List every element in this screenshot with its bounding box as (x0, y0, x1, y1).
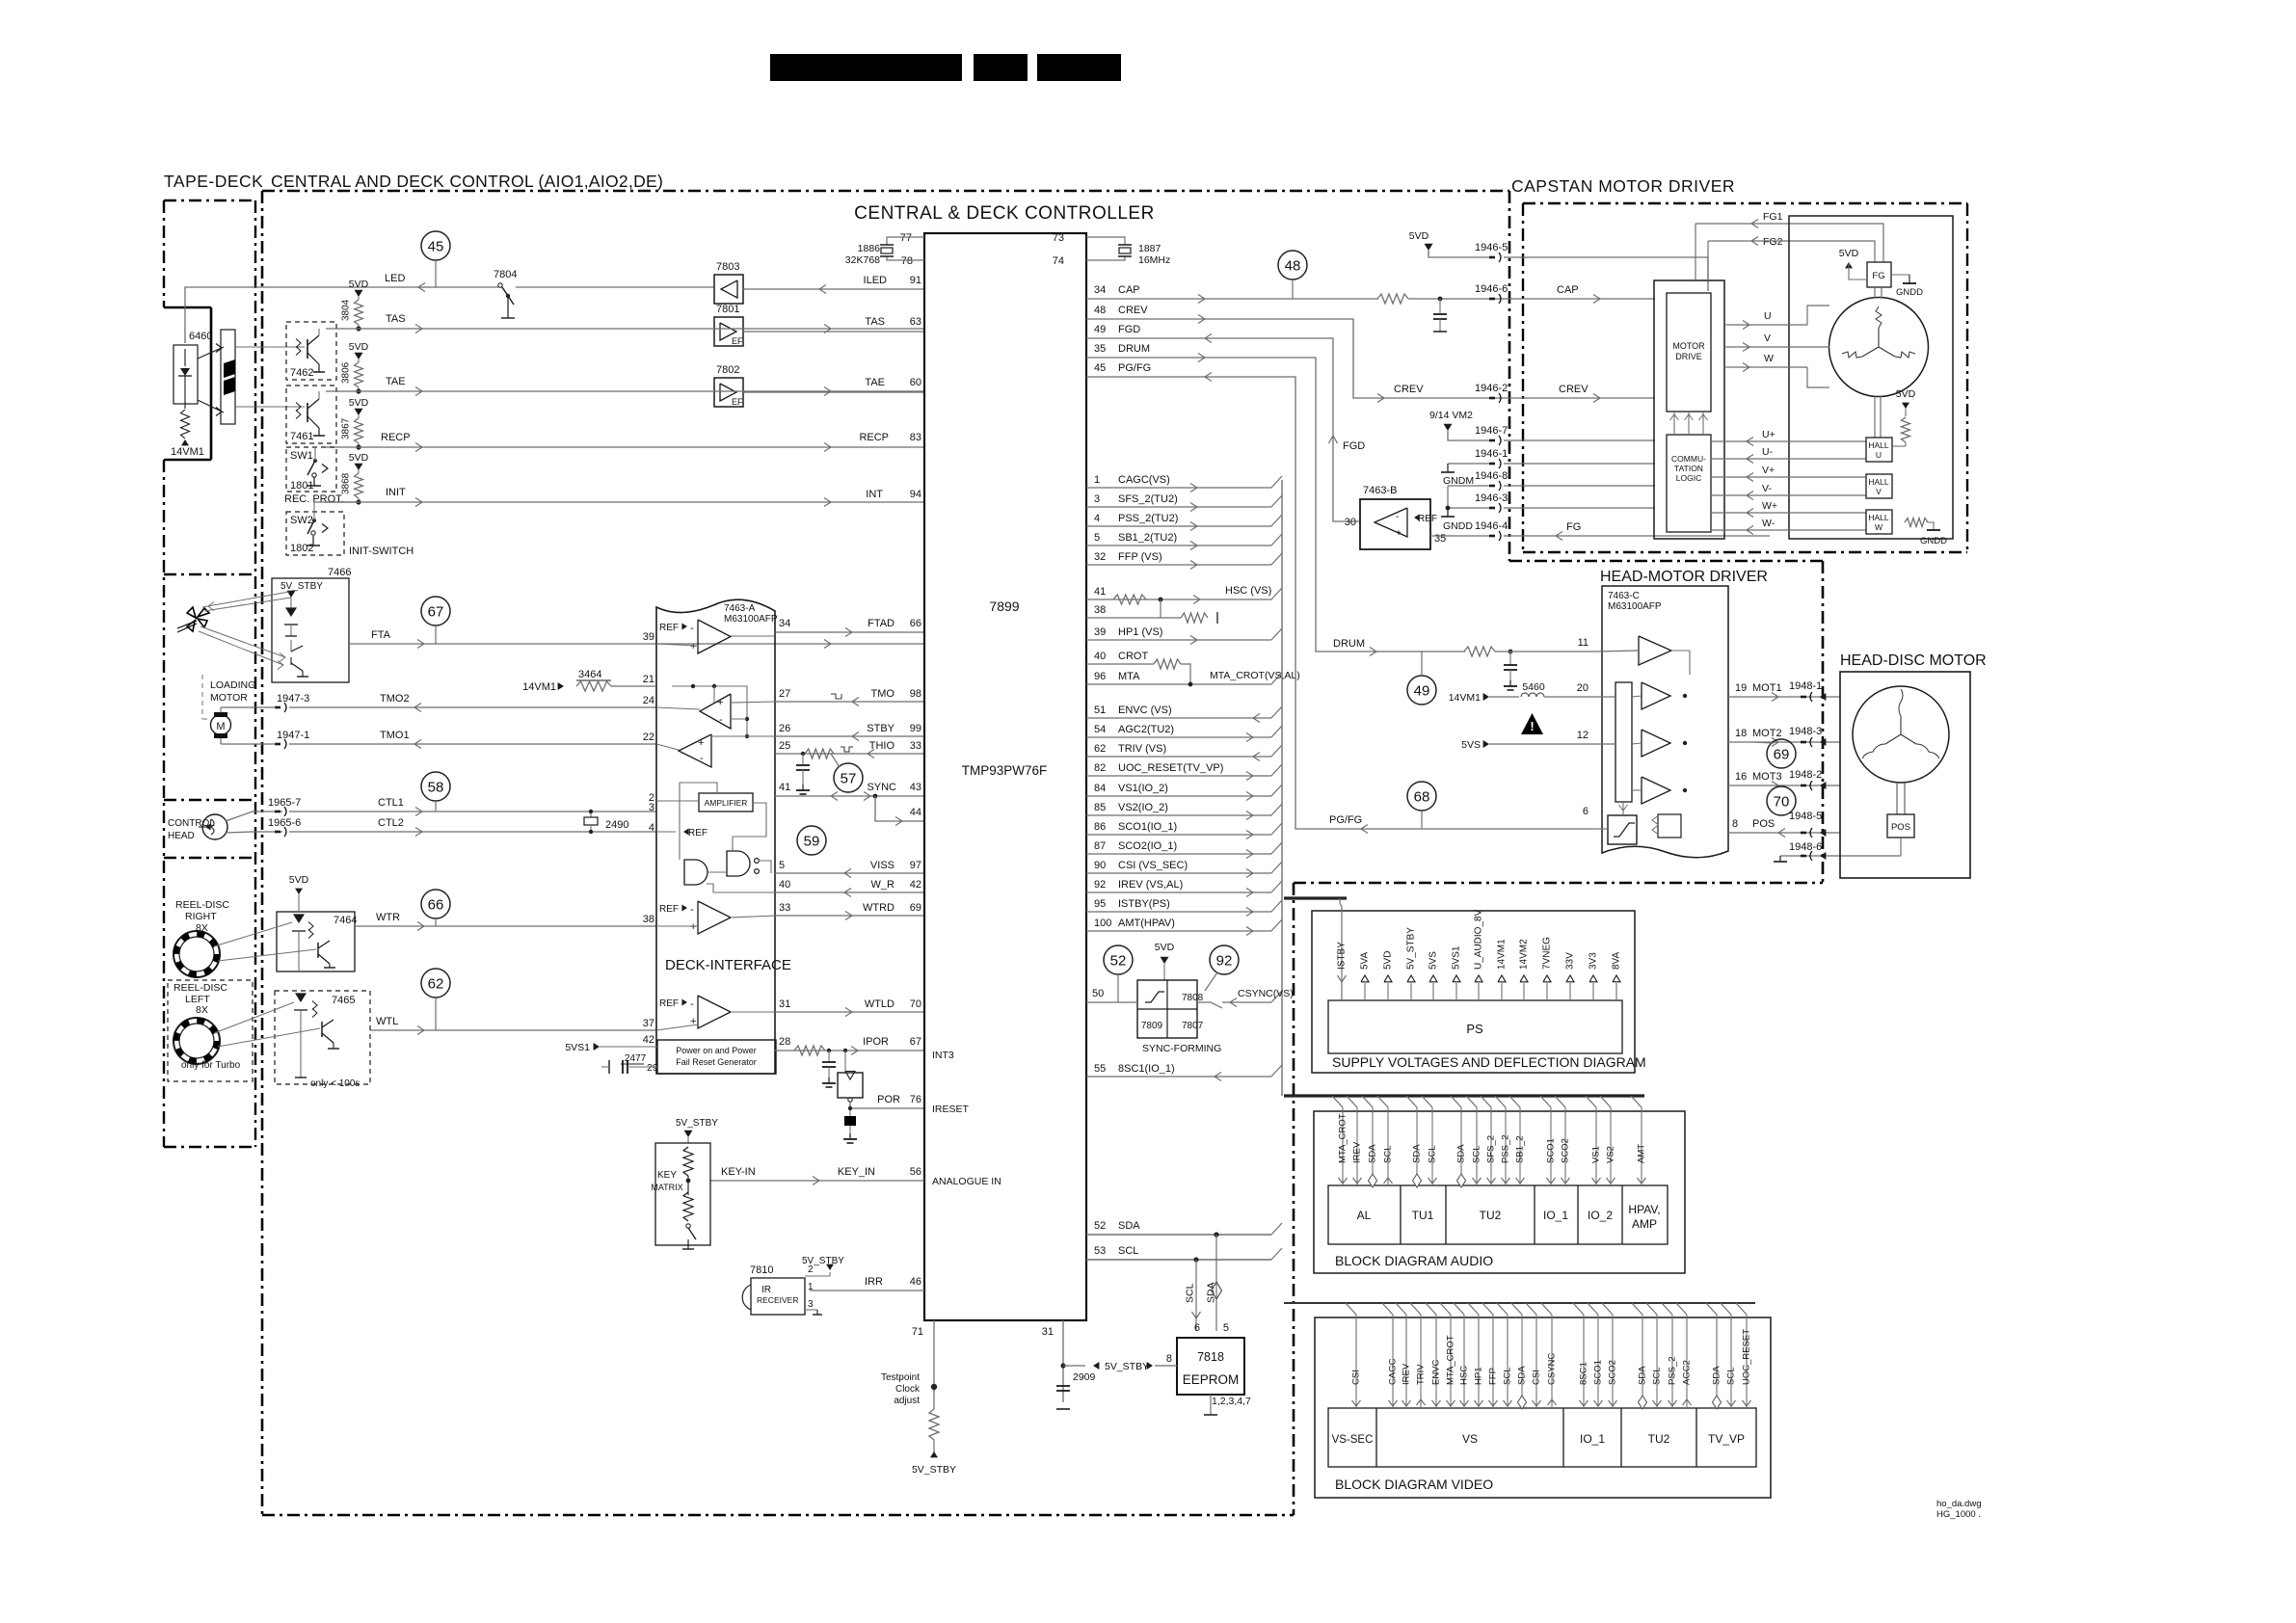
svg-text:+: + (1396, 528, 1402, 539)
svg-text:KEY_IN: KEY_IN (838, 1166, 875, 1178)
svg-text:CTL1: CTL1 (378, 797, 404, 809)
svg-text:22: 22 (643, 732, 654, 743)
svg-text:HPAV,: HPAV, (1628, 1203, 1660, 1216)
svg-text:71: 71 (912, 1326, 923, 1338)
svg-text:99: 99 (910, 723, 921, 734)
svg-text:W: W (1764, 353, 1774, 364)
svg-text:7VNEG: 7VNEG (1542, 937, 1553, 970)
svg-text:SDA: SDA (1118, 1220, 1140, 1232)
svg-text:1946-1: 1946-1 (1475, 448, 1508, 460)
svg-text:HSC (VS): HSC (VS) (1225, 585, 1271, 597)
svg-text:50: 50 (1092, 988, 1104, 999)
svg-text:RECEIVER: RECEIVER (757, 1295, 798, 1305)
svg-text:25: 25 (779, 740, 790, 752)
svg-text:18: 18 (1735, 728, 1747, 739)
svg-text:46: 46 (910, 1276, 921, 1288)
svg-text:SCL: SCL (1118, 1245, 1138, 1257)
svg-text:1948-2: 1948-2 (1789, 769, 1822, 781)
svg-text:POR: POR (877, 1094, 900, 1105)
svg-text:3V3: 3V3 (1589, 952, 1599, 970)
svg-text:5VA: 5VA (1360, 952, 1371, 970)
svg-text:31: 31 (1042, 1326, 1054, 1338)
svg-text:HP1 (VS): HP1 (VS) (1118, 626, 1162, 638)
svg-text:V+: V+ (1762, 465, 1775, 476)
svg-text:AL: AL (1357, 1209, 1372, 1222)
svg-text:MATRIX: MATRIX (651, 1183, 682, 1192)
svg-text:5VD: 5VD (349, 397, 369, 409)
svg-text:IRESET: IRESET (932, 1104, 970, 1115)
svg-text:RIGHT: RIGHT (185, 911, 217, 922)
svg-text:INT: INT (866, 489, 883, 500)
svg-text:REF: REF (659, 623, 679, 633)
svg-text:40: 40 (1094, 651, 1106, 662)
svg-text:!: ! (1530, 719, 1534, 733)
svg-text:56: 56 (910, 1166, 921, 1178)
svg-text:-: - (719, 714, 723, 726)
svg-text:45: 45 (428, 239, 444, 255)
svg-text:34: 34 (1094, 284, 1106, 296)
svg-text:3806: 3806 (341, 361, 352, 384)
svg-text:1948-5: 1948-5 (1789, 811, 1822, 822)
svg-text:DRIVE: DRIVE (1675, 352, 1702, 361)
svg-text:7809: 7809 (1141, 1021, 1163, 1031)
svg-text:11: 11 (1578, 637, 1589, 649)
svg-text:IREV: IREV (1352, 1141, 1363, 1163)
svg-text:1: 1 (1094, 474, 1100, 486)
svg-text:WTLD: WTLD (865, 998, 894, 1010)
svg-text:INIT-SWITCH: INIT-SWITCH (349, 545, 414, 557)
svg-text:5460: 5460 (1522, 681, 1545, 693)
svg-text:37: 37 (643, 1018, 654, 1029)
svg-text:HEAD-DISC MOTOR: HEAD-DISC MOTOR (1840, 652, 1987, 669)
svg-text:FGD: FGD (1343, 440, 1365, 452)
svg-text:ISTBY(PS): ISTBY(PS) (1118, 898, 1170, 910)
svg-text:HEAD-MOTOR DRIVER: HEAD-MOTOR DRIVER (1600, 569, 1768, 585)
svg-text:+: + (698, 737, 704, 749)
svg-text:78: 78 (901, 255, 913, 267)
svg-text:VS2: VS2 (1606, 1146, 1616, 1163)
svg-text:FG: FG (1566, 521, 1581, 533)
svg-text:16: 16 (1735, 771, 1747, 783)
svg-text:V: V (1764, 333, 1771, 344)
svg-text:FTA: FTA (371, 629, 391, 641)
svg-text:SB1_2: SB1_2 (1515, 1135, 1526, 1163)
svg-text:TAS: TAS (386, 313, 406, 325)
svg-text:CROT: CROT (1118, 651, 1148, 662)
svg-text:90: 90 (1094, 860, 1106, 871)
svg-text:2909: 2909 (1073, 1371, 1096, 1383)
svg-text:BLOCK DIAGRAM VIDEO: BLOCK DIAGRAM VIDEO (1335, 1477, 1493, 1492)
svg-text:STBY: STBY (867, 723, 894, 734)
svg-text:86: 86 (1094, 821, 1106, 833)
svg-text:CAGC(VS): CAGC(VS) (1118, 474, 1170, 486)
svg-text:SYNC-FORMING: SYNC-FORMING (1142, 1043, 1221, 1054)
svg-text:1946-2: 1946-2 (1475, 383, 1508, 394)
svg-text:CSI (VS_SEC): CSI (VS_SEC) (1118, 860, 1188, 871)
svg-text:92: 92 (1216, 953, 1233, 970)
svg-text:20: 20 (1577, 682, 1589, 694)
svg-text:ILED: ILED (864, 275, 888, 286)
svg-text:3: 3 (1094, 493, 1100, 505)
svg-text:-: - (690, 623, 694, 634)
svg-text:SCO1: SCO1 (1593, 1360, 1604, 1385)
svg-text:7462: 7462 (290, 367, 313, 379)
svg-text:-: - (690, 904, 694, 916)
svg-text:14VM1: 14VM1 (1497, 939, 1508, 970)
svg-text:VS: VS (1462, 1432, 1478, 1446)
svg-text:41: 41 (1094, 586, 1106, 598)
svg-text:TAE: TAE (865, 377, 885, 388)
svg-text:7464: 7464 (334, 915, 357, 926)
svg-text:HALL: HALL (1868, 477, 1889, 487)
svg-text:AGC2: AGC2 (1682, 1360, 1693, 1385)
svg-text:62: 62 (428, 976, 444, 993)
svg-text:AMPLIFIER: AMPLIFIER (705, 798, 748, 808)
svg-text:27: 27 (779, 688, 790, 700)
svg-text:HP1: HP1 (1474, 1368, 1484, 1385)
svg-text:70: 70 (1774, 794, 1790, 811)
svg-text:1887: 1887 (1138, 243, 1161, 254)
svg-text:ENVC (VS): ENVC (VS) (1118, 705, 1172, 716)
svg-text:42: 42 (643, 1034, 654, 1046)
svg-text:33: 33 (779, 902, 790, 914)
svg-text:EF: EF (732, 397, 743, 407)
svg-text:SCL: SCL (1726, 1368, 1737, 1385)
svg-text:MTA_CROT(VS,AL): MTA_CROT(VS,AL) (1210, 670, 1300, 681)
svg-text:70: 70 (910, 998, 921, 1010)
svg-text:33: 33 (910, 740, 921, 752)
svg-text:IPOR: IPOR (863, 1036, 889, 1048)
svg-text:RECP: RECP (859, 432, 889, 443)
svg-text:PG/FG: PG/FG (1118, 362, 1151, 374)
svg-text:35: 35 (1434, 533, 1446, 545)
svg-text:ANALOGUE IN: ANALOGUE IN (932, 1176, 1001, 1187)
svg-text:7802: 7802 (716, 364, 739, 376)
svg-text:63: 63 (910, 316, 921, 328)
svg-text:SYNC: SYNC (867, 782, 896, 793)
svg-text:DRUM: DRUM (1333, 638, 1365, 650)
svg-text:28: 28 (779, 1036, 790, 1048)
svg-text:REF: REF (688, 828, 707, 838)
svg-text:LOGIC: LOGIC (1676, 473, 1701, 483)
svg-text:94: 94 (910, 489, 921, 500)
svg-text:DRUM: DRUM (1118, 343, 1150, 355)
svg-text:73: 73 (1053, 232, 1064, 244)
svg-text:57: 57 (841, 771, 857, 787)
svg-text:45: 45 (1094, 362, 1106, 374)
svg-text:IO_1: IO_1 (1543, 1209, 1568, 1222)
svg-text:69: 69 (1774, 747, 1790, 763)
svg-text:SW2: SW2 (290, 515, 313, 526)
svg-text:IREV: IREV (1402, 1363, 1412, 1385)
svg-text:AMT: AMT (1637, 1144, 1647, 1163)
svg-text:UOC_RESET(TV_VP): UOC_RESET(TV_VP) (1118, 762, 1223, 774)
svg-text:SCL: SCL (1428, 1146, 1438, 1163)
svg-text:HEAD: HEAD (168, 831, 195, 841)
svg-text:5V_STBY: 5V_STBY (676, 1118, 718, 1129)
svg-text:PSS_2: PSS_2 (1668, 1356, 1678, 1385)
svg-text:EEPROM: EEPROM (1183, 1372, 1240, 1387)
svg-text:1: 1 (808, 1282, 814, 1292)
svg-text:7807: 7807 (1182, 1021, 1204, 1031)
svg-text:IO_1: IO_1 (1580, 1432, 1605, 1446)
svg-text:U: U (1876, 450, 1882, 460)
svg-text:VS1(IO_2): VS1(IO_2) (1118, 783, 1168, 794)
svg-text:FFP: FFP (1488, 1368, 1499, 1385)
svg-text:5VD: 5VD (1896, 388, 1916, 400)
svg-text:40: 40 (779, 879, 790, 891)
svg-text:52: 52 (1094, 1220, 1106, 1232)
svg-text:KEY-IN: KEY-IN (721, 1166, 756, 1178)
svg-text:98: 98 (910, 688, 921, 700)
svg-text:BLOCK DIAGRAM AUDIO: BLOCK DIAGRAM AUDIO (1335, 1253, 1493, 1268)
svg-text:GNDM: GNDM (1443, 475, 1474, 487)
svg-text:1948-6: 1948-6 (1789, 841, 1822, 853)
svg-text:REF: REF (1418, 514, 1437, 524)
svg-text:HG_1000 .: HG_1000 . (1936, 1509, 1981, 1520)
svg-text:35: 35 (1094, 343, 1106, 355)
svg-text:CTL2: CTL2 (378, 817, 404, 829)
svg-text:9/14 VM2: 9/14 VM2 (1429, 410, 1473, 421)
svg-text:1802: 1802 (290, 543, 313, 554)
svg-text:69: 69 (910, 902, 921, 914)
svg-text:SDA: SDA (1712, 1366, 1722, 1385)
svg-text:7463-C: 7463-C (1608, 591, 1640, 601)
svg-text:3: 3 (649, 802, 654, 813)
svg-text:5: 5 (1223, 1322, 1229, 1334)
svg-text:48: 48 (1094, 305, 1106, 316)
svg-text:5VD: 5VD (1409, 230, 1429, 242)
svg-text:1947-3: 1947-3 (277, 693, 309, 705)
svg-text:CAP: CAP (1118, 284, 1140, 296)
svg-text:CREV: CREV (1394, 384, 1424, 395)
svg-text:M63100AFP: M63100AFP (724, 614, 778, 625)
svg-text:TMO2: TMO2 (380, 693, 410, 705)
svg-text:49: 49 (1414, 683, 1430, 700)
svg-text:V: V (1876, 487, 1882, 496)
svg-text:CREV: CREV (1118, 305, 1148, 316)
svg-text:MOTOR: MOTOR (210, 692, 248, 704)
svg-text:7801: 7801 (716, 304, 739, 315)
svg-text:CREV: CREV (1559, 384, 1589, 395)
svg-text:62: 62 (1094, 743, 1106, 755)
svg-text:Power on and Power: Power on and Power (676, 1046, 757, 1055)
svg-text:TAS: TAS (865, 316, 885, 328)
svg-text:HALL: HALL (1868, 513, 1889, 522)
svg-text:CAGC: CAGC (1388, 1358, 1399, 1385)
svg-text:ENVC: ENVC (1431, 1359, 1442, 1385)
svg-text:SCO1: SCO1 (1546, 1138, 1557, 1163)
svg-text:5VD: 5VD (349, 341, 369, 353)
svg-text:TRIV: TRIV (1416, 1364, 1427, 1385)
svg-text:5: 5 (1094, 532, 1100, 544)
svg-text:8: 8 (1166, 1353, 1172, 1365)
svg-text:5V_STBY: 5V_STBY (280, 581, 323, 592)
svg-text:42: 42 (910, 879, 921, 891)
svg-text:U_AUDIO_8V: U_AUDIO_8V (1474, 909, 1484, 970)
svg-text:3464: 3464 (578, 669, 601, 680)
svg-text:77: 77 (900, 232, 912, 244)
svg-text:5VD: 5VD (1155, 942, 1175, 953)
svg-text:1946-4: 1946-4 (1475, 520, 1508, 532)
svg-text:83: 83 (910, 432, 921, 443)
svg-text:14VM1: 14VM1 (1449, 692, 1481, 704)
svg-text:DECK-INTERFACE: DECK-INTERFACE (665, 957, 791, 973)
svg-text:6: 6 (1194, 1322, 1200, 1334)
svg-text:POS: POS (1752, 818, 1775, 830)
svg-text:TU1: TU1 (1412, 1209, 1434, 1222)
svg-text:SCO2: SCO2 (1608, 1360, 1618, 1385)
svg-text:IR: IR (761, 1285, 771, 1295)
svg-text:SB1_2(TU2): SB1_2(TU2) (1118, 532, 1177, 544)
svg-text:6: 6 (1583, 806, 1589, 817)
svg-text:5VS: 5VS (1461, 739, 1481, 751)
svg-text:FFP (VS): FFP (VS) (1118, 551, 1162, 563)
svg-text:M63100AFP: M63100AFP (1608, 601, 1662, 612)
svg-text:1948-1: 1948-1 (1789, 680, 1822, 692)
svg-text:8SC1(IO_1): 8SC1(IO_1) (1118, 1063, 1175, 1075)
svg-text:adjust: adjust (894, 1396, 920, 1406)
svg-text:95: 95 (1094, 898, 1106, 910)
svg-text:FGD: FGD (1118, 324, 1140, 335)
svg-text:5V_STBY: 5V_STBY (802, 1256, 844, 1266)
svg-text:ISTBY: ISTBY (1337, 942, 1348, 970)
svg-text:SCL: SCL (1652, 1368, 1663, 1385)
svg-text:5VS1: 5VS1 (565, 1042, 590, 1053)
svg-text:84: 84 (1094, 783, 1106, 794)
svg-text:-: - (1396, 512, 1399, 522)
svg-text:U: U (1764, 310, 1772, 322)
svg-text:92: 92 (1094, 879, 1106, 891)
svg-text:-: - (690, 998, 694, 1010)
svg-text:only < 100s: only < 100s (310, 1078, 360, 1089)
svg-text:12: 12 (1577, 730, 1589, 741)
svg-text:REF: REF (659, 904, 679, 915)
svg-text:SCL: SCL (1472, 1146, 1482, 1163)
svg-text:7463-A: 7463-A (724, 603, 756, 614)
svg-text:32: 32 (1094, 551, 1106, 563)
svg-text:U-: U- (1762, 446, 1774, 458)
svg-text:49: 49 (1094, 324, 1106, 335)
svg-text:SCL: SCL (1383, 1146, 1394, 1163)
svg-text:MOT1: MOT1 (1752, 682, 1782, 694)
svg-text:MTA_CROT: MTA_CROT (1446, 1335, 1456, 1385)
svg-text:TATION: TATION (1674, 464, 1703, 473)
svg-text:COMMU-: COMMU- (1671, 454, 1706, 464)
svg-text:1947-1: 1947-1 (277, 730, 309, 741)
svg-text:31: 31 (779, 998, 790, 1010)
svg-text:1801: 1801 (290, 480, 313, 492)
svg-text:PS: PS (1466, 1022, 1483, 1036)
svg-text:8VA: 8VA (1612, 952, 1622, 970)
svg-text:39: 39 (643, 631, 654, 643)
svg-text:U+: U+ (1762, 429, 1775, 440)
svg-text:GNDD: GNDD (1443, 520, 1473, 532)
svg-text:7803: 7803 (716, 261, 739, 273)
svg-text:100: 100 (1094, 918, 1111, 929)
svg-text:FTAD: FTAD (868, 618, 894, 629)
svg-text:1948-3: 1948-3 (1789, 726, 1822, 737)
svg-text:KEY: KEY (657, 1170, 677, 1181)
svg-text:5VS1: 5VS1 (1452, 945, 1462, 970)
svg-text:97: 97 (910, 860, 921, 871)
svg-text:TMO1: TMO1 (380, 730, 410, 741)
svg-text:SCO2(IO_1): SCO2(IO_1) (1118, 840, 1177, 852)
svg-text:TMO: TMO (871, 688, 895, 700)
svg-text:24: 24 (643, 695, 654, 706)
svg-text:CENTRAL & DECK CONTROLLER: CENTRAL & DECK CONTROLLER (854, 203, 1155, 224)
svg-text:CSI: CSI (1351, 1370, 1362, 1385)
svg-text:CSI: CSI (1532, 1370, 1542, 1385)
svg-text:32K768: 32K768 (845, 254, 880, 266)
svg-text:5VD: 5VD (1839, 248, 1859, 259)
svg-text:FG: FG (1872, 271, 1884, 281)
svg-text:21: 21 (643, 674, 654, 685)
svg-text:1946-8: 1946-8 (1475, 470, 1508, 482)
svg-text:SW1: SW1 (290, 450, 313, 462)
svg-text:+: + (690, 921, 696, 933)
svg-text:66: 66 (910, 618, 921, 629)
svg-text:1946-5: 1946-5 (1475, 242, 1508, 253)
svg-text:AMT(HPAV): AMT(HPAV) (1118, 918, 1175, 929)
svg-text:2490: 2490 (605, 819, 628, 831)
svg-text:GNDD: GNDD (1920, 536, 1947, 546)
svg-text:48: 48 (1285, 258, 1301, 275)
svg-text:IO_2: IO_2 (1588, 1209, 1613, 1222)
svg-text:41: 41 (779, 782, 790, 793)
svg-text:7463-B: 7463-B (1363, 485, 1397, 496)
svg-text:W: W (1875, 522, 1882, 532)
svg-text:1946-7: 1946-7 (1475, 425, 1508, 437)
svg-text:54: 54 (1094, 724, 1106, 735)
svg-text:5VD: 5VD (349, 452, 369, 464)
svg-text:AGC2(TU2): AGC2(TU2) (1118, 724, 1174, 735)
svg-text:IREV (VS,AL): IREV (VS,AL) (1118, 879, 1183, 891)
svg-text:91: 91 (910, 275, 921, 286)
svg-text:SDA: SDA (1368, 1144, 1378, 1163)
svg-text:LOADING: LOADING (210, 679, 255, 691)
svg-text:66: 66 (428, 897, 444, 914)
svg-text:LED: LED (385, 273, 405, 284)
svg-text:REF: REF (659, 998, 679, 1009)
svg-text:HSC: HSC (1459, 1366, 1470, 1385)
svg-text:W_R: W_R (871, 879, 895, 891)
svg-text:58: 58 (428, 780, 444, 796)
svg-text:3868: 3868 (341, 472, 352, 494)
svg-text:51: 51 (1094, 705, 1106, 716)
svg-text:7899: 7899 (989, 599, 1019, 614)
svg-text:FG1: FG1 (1763, 211, 1783, 223)
svg-text:5V_STBY: 5V_STBY (912, 1464, 956, 1476)
svg-text:RECP: RECP (381, 432, 411, 443)
svg-text:AMP: AMP (1632, 1217, 1657, 1231)
svg-text:MTA_CROT: MTA_CROT (1338, 1113, 1348, 1163)
svg-text:PG/FG: PG/FG (1329, 814, 1362, 826)
svg-text:67: 67 (428, 604, 444, 621)
svg-text:60: 60 (910, 377, 921, 388)
svg-text:+: + (690, 641, 696, 652)
svg-text:GNDD: GNDD (1896, 287, 1923, 298)
svg-text:CAP: CAP (1557, 284, 1579, 296)
svg-text:INIT: INIT (386, 487, 406, 498)
svg-text:5V_STBY: 5V_STBY (1105, 1361, 1149, 1372)
svg-text:3: 3 (808, 1299, 814, 1310)
svg-text:SCL: SCL (1185, 1283, 1196, 1303)
svg-text:WTRD: WTRD (863, 902, 894, 914)
svg-text:UOC_RESET: UOC_RESET (1742, 1329, 1752, 1385)
svg-text:TMP93PW76F: TMP93PW76F (962, 763, 1048, 778)
svg-text:V-: V- (1762, 483, 1772, 494)
